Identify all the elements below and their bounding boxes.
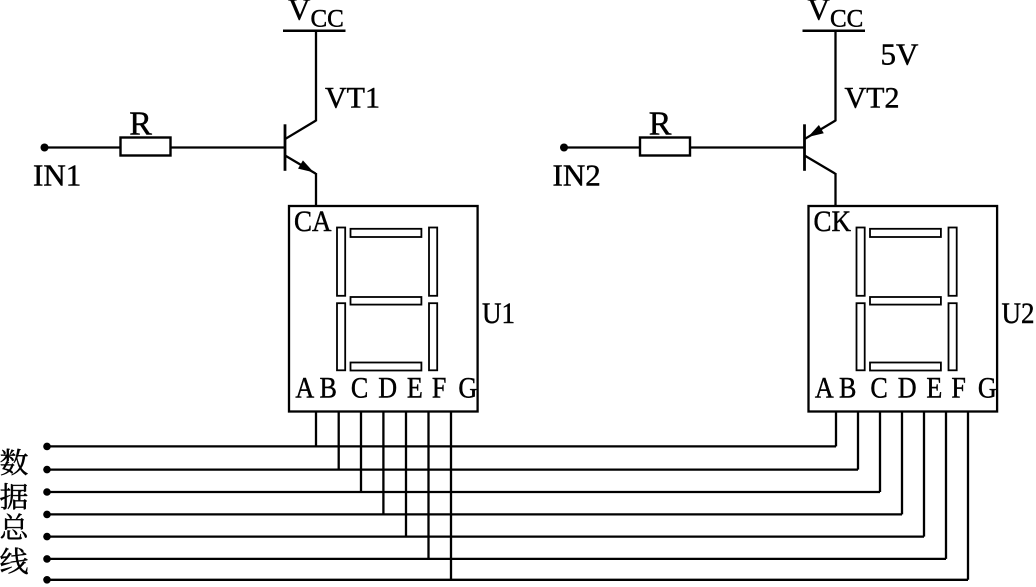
svg-text:F: F bbox=[432, 372, 447, 405]
svg-text:D: D bbox=[898, 372, 917, 405]
svg-text:C: C bbox=[351, 372, 368, 405]
svg-text:E: E bbox=[407, 372, 423, 405]
svg-text:A: A bbox=[815, 372, 834, 405]
svg-text:VT2: VT2 bbox=[845, 82, 900, 115]
svg-text:D: D bbox=[378, 372, 397, 405]
svg-text:R: R bbox=[129, 106, 152, 143]
svg-text:C: C bbox=[870, 372, 887, 405]
svg-text:G: G bbox=[458, 372, 477, 405]
svg-text:U2: U2 bbox=[1002, 298, 1035, 331]
svg-text:F: F bbox=[951, 372, 966, 405]
svg-text:V: V bbox=[808, 0, 831, 27]
svg-text:B: B bbox=[839, 372, 856, 405]
svg-text:IN2: IN2 bbox=[553, 158, 601, 193]
svg-text:IN1: IN1 bbox=[33, 158, 81, 193]
svg-text:CA: CA bbox=[294, 206, 332, 239]
svg-text:CC: CC bbox=[830, 6, 863, 33]
svg-text:5V: 5V bbox=[881, 36, 920, 71]
svg-text:R: R bbox=[649, 106, 672, 143]
svg-text:G: G bbox=[978, 372, 997, 405]
svg-text:E: E bbox=[926, 372, 942, 405]
svg-text:VT1: VT1 bbox=[325, 82, 380, 115]
svg-text:B: B bbox=[319, 372, 336, 405]
svg-text:CK: CK bbox=[814, 206, 852, 239]
svg-text:V: V bbox=[288, 0, 311, 27]
svg-text:U1: U1 bbox=[482, 298, 515, 331]
svg-text:A: A bbox=[295, 372, 314, 405]
svg-text:CC: CC bbox=[311, 6, 344, 33]
